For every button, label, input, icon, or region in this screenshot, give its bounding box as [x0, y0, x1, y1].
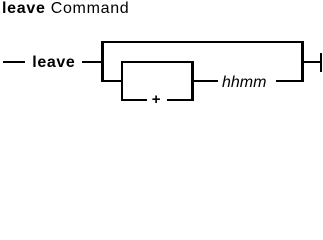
terminator bar: [320, 53, 322, 73]
wire: dash after hhmm: [276, 80, 304, 82]
wire: main line after leave: [82, 61, 104, 63]
variable hhmm: [222, 73, 266, 92]
wire: outer bypass top line H1: [101, 41, 304, 43]
wire: main exit line: [301, 61, 320, 63]
wire: main entry dash: [3, 61, 26, 63]
wire: inner bypass top line H2: [121, 61, 194, 63]
wire: lower rail segment V1 to V2: [101, 80, 123, 82]
node: inner branch right vertical V3: [191, 61, 194, 102]
node: outer branch right vertical V5: [301, 41, 304, 82]
wire: plus branch left dash: [121, 99, 148, 101]
operator +: [152, 92, 161, 107]
node: outer branch left vertical V1: [101, 41, 104, 82]
wire: plus branch right dash: [167, 99, 194, 101]
keyword leave: [32, 53, 75, 72]
node: inner branch left vertical V2: [121, 61, 124, 102]
wire: dash before hhmm: [191, 80, 218, 82]
title: leave Command: [2, 0, 129, 18]
